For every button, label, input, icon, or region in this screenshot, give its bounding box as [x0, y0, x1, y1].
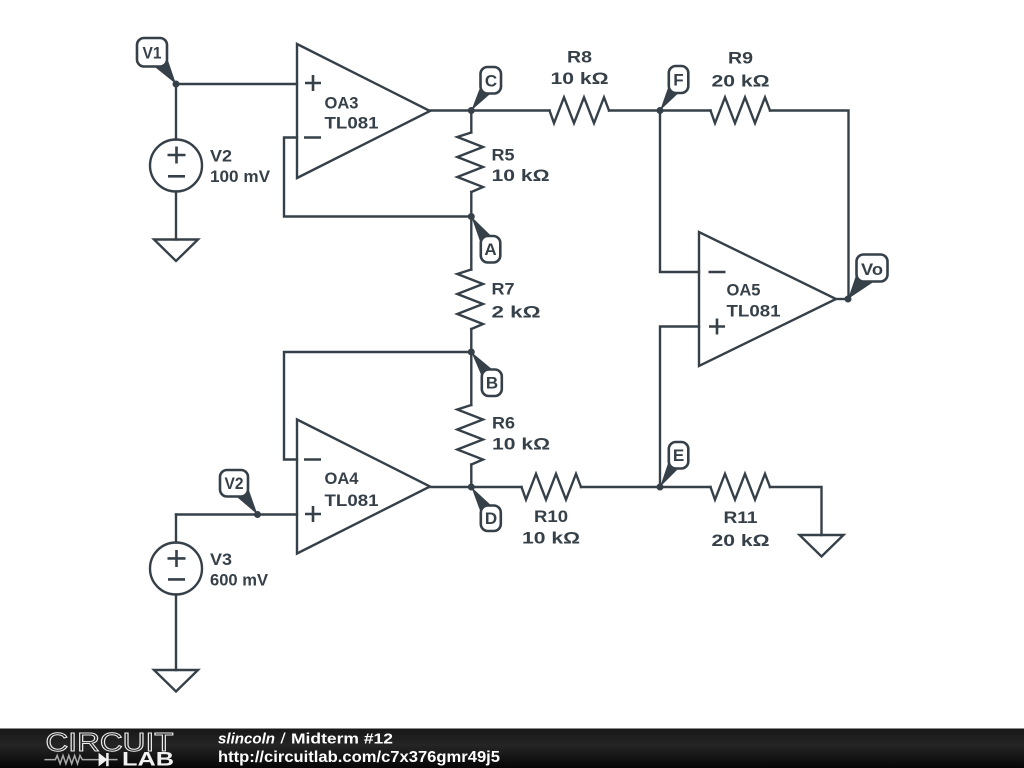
- svg-text:R6: R6: [492, 414, 515, 433]
- svg-text:C: C: [485, 72, 497, 91]
- svg-text:LAB: LAB: [122, 750, 174, 768]
- svg-text:R8: R8: [567, 48, 592, 67]
- svg-text:OA3: OA3: [325, 94, 359, 113]
- svg-text:V3: V3: [210, 550, 232, 569]
- svg-text:slincoln / Midterm #12: slincoln / Midterm #12: [218, 731, 393, 748]
- svg-text:2 kΩ: 2 kΩ: [492, 302, 541, 321]
- svg-text:10 kΩ: 10 kΩ: [522, 529, 580, 548]
- svg-text:A: A: [484, 240, 496, 259]
- svg-text:20 kΩ: 20 kΩ: [712, 71, 770, 90]
- svg-text:TL081: TL081: [325, 114, 379, 133]
- svg-text:B: B: [486, 374, 498, 393]
- svg-text:OA5: OA5: [727, 281, 761, 300]
- svg-text:600 mV: 600 mV: [210, 570, 269, 589]
- svg-text:http://circuitlab.com/c7x376gm: http://circuitlab.com/c7x376gmr49j5: [218, 749, 500, 766]
- svg-text:100 mV: 100 mV: [210, 167, 271, 186]
- svg-text:TL081: TL081: [727, 302, 781, 321]
- svg-text:F: F: [673, 71, 683, 90]
- svg-text:D: D: [485, 509, 497, 528]
- svg-text:TL081: TL081: [325, 491, 379, 510]
- svg-text:R5: R5: [492, 146, 515, 165]
- svg-text:10 kΩ: 10 kΩ: [492, 435, 550, 454]
- svg-text:V2: V2: [225, 474, 244, 493]
- svg-text:V1: V1: [143, 44, 162, 63]
- svg-text:R10: R10: [534, 507, 568, 526]
- svg-text:Vo: Vo: [861, 260, 883, 279]
- svg-text:20 kΩ: 20 kΩ: [712, 531, 770, 550]
- svg-text:V2: V2: [210, 147, 232, 166]
- svg-text:R9: R9: [728, 49, 753, 68]
- svg-text:OA4: OA4: [325, 469, 360, 488]
- svg-text:10 kΩ: 10 kΩ: [551, 69, 609, 88]
- svg-text:10 kΩ: 10 kΩ: [492, 166, 550, 185]
- svg-text:E: E: [673, 446, 684, 465]
- svg-text:R7: R7: [492, 280, 515, 299]
- svg-text:R11: R11: [724, 508, 758, 527]
